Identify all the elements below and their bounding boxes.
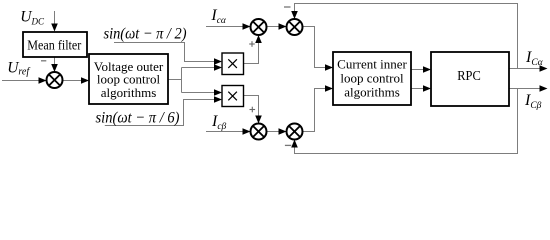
svg-text:UDC: UDC <box>20 9 45 27</box>
svg-text:sin(ωt − π / 6): sin(ωt − π / 6) <box>96 109 180 126</box>
svg-text:ICα: ICα <box>525 49 544 68</box>
svg-text:algorithms: algorithms <box>101 85 157 100</box>
svg-text:Icα: Icα <box>210 7 227 26</box>
svg-text:ICβ: ICβ <box>524 92 542 111</box>
svg-text:Current inner: Current inner <box>337 57 407 72</box>
svg-text:Uref: Uref <box>7 59 30 77</box>
svg-text:sin(ωt − π / 2): sin(ωt − π / 2) <box>104 25 187 42</box>
svg-text:Mean filter: Mean filter <box>27 37 81 52</box>
svg-text:RPC: RPC <box>457 69 481 84</box>
svg-text:Icβ: Icβ <box>211 113 227 132</box>
svg-text:loop control: loop control <box>340 71 404 86</box>
svg-text:algorithms: algorithms <box>344 85 400 100</box>
